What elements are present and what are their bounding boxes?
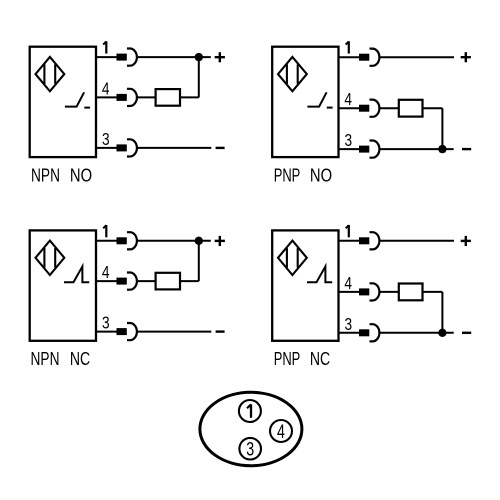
wire node down to junction bbox=[441, 292, 443, 333]
svg-text:4: 4 bbox=[102, 263, 110, 282]
plus terminal bbox=[215, 52, 225, 62]
wire pin1 to plug bbox=[339, 240, 360, 242]
plug pin3 bbox=[117, 144, 127, 151]
plug pin3 bbox=[359, 146, 369, 153]
svg-text:3: 3 bbox=[344, 131, 352, 150]
connector pin 4 circle bbox=[270, 420, 292, 442]
svg-text:NO: NO bbox=[310, 165, 332, 186]
load resistor bbox=[399, 284, 423, 301]
wire pin3 to plug bbox=[339, 332, 360, 334]
svg-text:NPN: NPN bbox=[31, 349, 60, 369]
plus terminal bbox=[461, 236, 471, 246]
sensor box U4 bbox=[272, 230, 338, 340]
socket arc pin4 bbox=[370, 283, 380, 300]
wire pin4 to load bbox=[379, 107, 398, 109]
socket arc pin3 bbox=[370, 141, 380, 158]
wire pin3 to minus bbox=[137, 147, 211, 149]
socket arc pin4 bbox=[370, 100, 380, 117]
wire pin3 to minus bbox=[379, 332, 453, 334]
plug pin1 bbox=[117, 54, 127, 61]
NC contact switch U3 bbox=[64, 266, 89, 282]
wire node up to junction bbox=[198, 57, 200, 97]
svg-text:3: 3 bbox=[102, 314, 110, 333]
wire pin1 to plus bbox=[379, 56, 454, 58]
wire load to node bbox=[180, 96, 199, 98]
plug pin4 bbox=[359, 288, 369, 295]
wire pin3 to plug bbox=[339, 148, 360, 150]
plug pin4 bbox=[117, 94, 127, 101]
plug pin4 bbox=[117, 278, 127, 285]
wire pin4 to plug bbox=[96, 96, 117, 98]
sensor symbol (diamond) U3 bbox=[36, 241, 65, 275]
pin 1 label bbox=[103, 225, 106, 237]
sensor symbol (diamond) U2 bbox=[278, 57, 307, 91]
wire pin4 to plug bbox=[339, 107, 360, 109]
socket arc pin1 bbox=[127, 232, 137, 249]
wire load to node bbox=[423, 291, 443, 293]
svg-text:PNP: PNP bbox=[274, 350, 301, 370]
plug pin4 bbox=[359, 105, 369, 112]
minus terminal bbox=[462, 332, 471, 334]
wire pin3 to minus bbox=[379, 148, 453, 150]
wire pin4 to load bbox=[137, 280, 156, 282]
junction dot on - line bbox=[438, 329, 446, 337]
load resistor bbox=[399, 100, 423, 117]
wire pin4 to load bbox=[379, 291, 398, 293]
socket arc pin3 bbox=[370, 324, 380, 341]
svg-text:4: 4 bbox=[277, 421, 285, 442]
wire pin3 to plug bbox=[96, 331, 117, 333]
connector pin 1 circle bbox=[239, 400, 261, 422]
pin 1 label bbox=[346, 225, 349, 237]
sensor box U3 bbox=[30, 230, 96, 340]
sensor symbol (diamond) U1 bbox=[36, 57, 65, 91]
wire pin3 to minus bbox=[137, 331, 211, 333]
svg-text:4: 4 bbox=[344, 274, 352, 293]
socket arc pin4 bbox=[127, 89, 137, 106]
load resistor bbox=[156, 273, 180, 290]
wire pin1 to plug bbox=[96, 240, 117, 242]
svg-text:3: 3 bbox=[344, 315, 352, 334]
plus terminal bbox=[461, 52, 471, 62]
pin 1 label bbox=[346, 41, 349, 53]
minus terminal bbox=[462, 148, 471, 150]
plus terminal bbox=[215, 236, 225, 246]
NO contact switch U2 bbox=[307, 92, 332, 107]
socket arc pin1 bbox=[370, 232, 380, 249]
wire pin1 to plug bbox=[96, 56, 117, 58]
wire node down to junction bbox=[441, 108, 443, 149]
wire load to node bbox=[180, 280, 199, 282]
pin 1 label bbox=[103, 41, 106, 53]
NC contact switch U4 bbox=[307, 266, 332, 282]
plug pin3 bbox=[117, 328, 127, 335]
plug pin1 bbox=[359, 54, 369, 61]
svg-text:NC: NC bbox=[70, 349, 90, 369]
junction dot on - line bbox=[438, 145, 446, 153]
socket arc pin1 bbox=[370, 49, 380, 66]
load resistor bbox=[156, 89, 180, 106]
wire pin4 to plug bbox=[339, 291, 360, 293]
svg-text:NPN: NPN bbox=[31, 166, 60, 186]
svg-text:NC: NC bbox=[310, 349, 330, 369]
socket arc pin3 bbox=[127, 139, 137, 156]
wire pin3 to plug bbox=[96, 147, 117, 149]
socket arc pin1 bbox=[127, 49, 137, 66]
sensor box U1 bbox=[30, 47, 96, 157]
plug pin1 bbox=[117, 237, 127, 244]
svg-text:4: 4 bbox=[344, 91, 352, 110]
svg-text:NO: NO bbox=[70, 165, 92, 186]
wire node up to junction bbox=[198, 241, 200, 281]
svg-text:3: 3 bbox=[246, 439, 254, 460]
wire pin4 to load bbox=[137, 96, 156, 98]
sensor box U2 bbox=[272, 47, 338, 157]
wire load to node bbox=[423, 107, 443, 109]
wire pin4 to plug bbox=[96, 280, 117, 282]
connector pin 3 circle bbox=[239, 438, 261, 460]
wire pin1 to plus bbox=[137, 56, 211, 58]
connector pin 1 label bbox=[247, 404, 251, 418]
socket arc pin3 bbox=[127, 323, 137, 340]
socket arc pin4 bbox=[127, 273, 137, 290]
plug pin1 bbox=[359, 237, 369, 244]
junction dot on + line bbox=[195, 237, 203, 245]
plug pin3 bbox=[359, 329, 369, 336]
svg-text:4: 4 bbox=[102, 80, 110, 99]
wire pin1 to plus bbox=[379, 240, 454, 242]
NO contact switch U1 bbox=[65, 92, 90, 107]
minus terminal bbox=[216, 147, 225, 149]
sensor symbol (diamond) U4 bbox=[278, 241, 307, 275]
junction dot on + line bbox=[195, 53, 203, 61]
wire pin1 to plus bbox=[137, 240, 211, 242]
connector face ellipse bbox=[200, 392, 302, 465]
svg-text:3: 3 bbox=[102, 130, 110, 149]
minus terminal bbox=[216, 330, 225, 332]
svg-text:PNP: PNP bbox=[274, 166, 301, 186]
wire pin1 to plug bbox=[339, 56, 360, 58]
